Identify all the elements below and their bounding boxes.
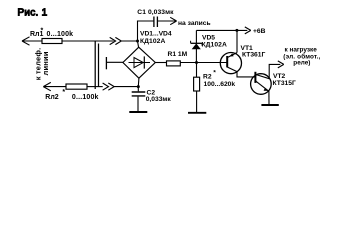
- ground (VT2 emitter): [261, 104, 278, 106]
- node A junction: [136, 40, 139, 43]
- label к нагрузке (эл. обмот. реле): [283, 47, 320, 67]
- wire top branch: [62, 40, 114, 42]
- ground (R2): [188, 112, 206, 114]
- wire bottom branch: [87, 86, 103, 88]
- diode bridge VD1-VD4 (diamond): [123, 47, 155, 78]
- resistor Rл1: [42, 39, 62, 44]
- wire to node B: [114, 86, 138, 88]
- coupling capacitor plate A (long, on line side): [94, 41, 96, 89]
- transistor VT1 (КТ361Г, PNP): [220, 30, 255, 77]
- svg-text:на запись: на запись: [178, 20, 211, 27]
- label C2 0,033мк: [146, 90, 172, 103]
- svg-text:0...100k: 0...100k: [47, 31, 74, 38]
- connector chevrons (bottom): [103, 83, 115, 90]
- label Rл2 with asterisk and value: [45, 89, 98, 101]
- VT2 emitter wire to ground: [268, 91, 270, 104]
- label VT1 КТ361Г: [241, 45, 266, 58]
- svg-text:VD1...VD4: VD1...VD4: [140, 31, 172, 38]
- svg-text:VD5: VD5: [202, 34, 215, 41]
- arrow to phone line (top wire): [22, 37, 42, 45]
- zener diode VD5: [191, 30, 203, 62]
- label VT2 КТ315Г: [273, 73, 296, 87]
- wire bridge bottom to node B: [137, 78, 140, 86]
- node C junction: [195, 61, 198, 64]
- capacitor tap bar: [105, 57, 107, 69]
- wire node A up to C1: [138, 21, 154, 41]
- arrow to phone line (bottom wire): [43, 82, 66, 90]
- svg-text:Rл2: Rл2: [45, 94, 59, 101]
- svg-text:КТ361Г: КТ361Г: [242, 51, 265, 58]
- svg-text:КД102А: КД102А: [140, 38, 166, 45]
- wire node A down to bridge top: [138, 41, 139, 47]
- svg-text:*: *: [213, 70, 216, 77]
- svg-text:0,033мк: 0,033мк: [146, 96, 172, 103]
- transistor VT2 (КТ315Г, NPN): [251, 72, 272, 94]
- wire tap to bridge: [106, 61, 123, 63]
- svg-text:0...100k: 0...100k: [72, 94, 99, 101]
- label VD1...VD4 КД102А: [140, 31, 172, 45]
- resistor R1: [167, 61, 181, 66]
- label VD5 КД102А: [202, 34, 228, 48]
- svg-text:КД102А: КД102А: [202, 42, 228, 49]
- vertical label "к телеф. линии": [34, 48, 50, 81]
- capacitor C2: [132, 87, 146, 112]
- VT2 collector wire and arrow "к нагрузке": [269, 61, 284, 79]
- connector chevrons (top): [110, 37, 122, 44]
- capacitor C1: [154, 17, 158, 28]
- svg-text:100...620k: 100...620k: [204, 81, 236, 88]
- wire to node A: [121, 40, 137, 42]
- svg-text:*: *: [41, 28, 44, 35]
- bridge inner diode: [129, 56, 151, 68]
- svg-text:линии: линии: [41, 51, 50, 75]
- coupling capacitor plate B: [98, 44, 100, 87]
- svg-text:Рис. 1: Рис. 1: [18, 7, 48, 18]
- svg-text:реле): реле): [293, 60, 310, 67]
- resistor Rл2: [66, 84, 87, 89]
- node D junction on rail: [235, 29, 238, 32]
- wire bridge right to R1: [155, 62, 166, 64]
- svg-text:КТ315Г: КТ315Г: [273, 80, 296, 87]
- svg-text:*: *: [62, 89, 65, 96]
- ground (C2): [129, 111, 147, 113]
- node B junction: [137, 85, 140, 88]
- svg-text:C1 0,033мк: C1 0,033мк: [137, 9, 174, 16]
- wire and arrow "на запись": [157, 17, 176, 24]
- +6V power rail: [196, 27, 250, 34]
- wire R1 to node C and VT1 base: [180, 62, 227, 64]
- resistor R2: [194, 63, 200, 113]
- label R2* 100...620k: [203, 70, 235, 88]
- svg-text:+6В: +6В: [253, 28, 266, 35]
- svg-text:R2: R2: [203, 74, 212, 81]
- label Rл1 with asterisk and value 0...100k: [30, 28, 73, 39]
- svg-text:R1 1М: R1 1М: [168, 51, 188, 58]
- svg-text:VT2: VT2: [273, 73, 286, 80]
